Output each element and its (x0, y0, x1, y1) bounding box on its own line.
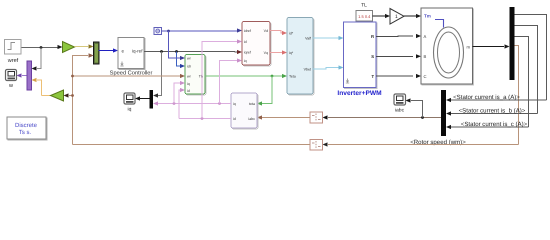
svg-text:Discrete: Discrete (15, 122, 38, 129)
svg-text:A: A (424, 34, 427, 39)
wire teta branch down to dq transform (262, 76, 272, 104)
wire iq measured (158, 103, 231, 105)
svg-text:Teta: Teta (289, 75, 296, 79)
wire teta output (205, 75, 283, 77)
svg-text:1: 1 (395, 14, 398, 20)
svg-text:w: w (8, 83, 13, 89)
wire mux to scope iq (140, 98, 150, 100)
svg-text:1.5 0.4: 1.5 0.4 (358, 14, 371, 19)
wire iq-ref branch to teta calc port2 (177, 52, 181, 67)
wire stator current is_b row (451, 113, 538, 115)
svg-text:id*: id* (289, 32, 294, 36)
rate transition B (310, 140, 323, 151)
svg-text:e: e (122, 48, 125, 53)
wire iq-ref drop to iq mux (158, 52, 162, 96)
wire wref output to gain (22, 47, 59, 49)
svg-text:Ts s.: Ts s. (19, 129, 32, 136)
wire bus tap is_a (515, 15, 547, 101)
svg-text:idref: idref (244, 29, 251, 33)
wire rotor speed feedback to controller (73, 56, 311, 145)
wire iq measured up to regulator (220, 61, 238, 104)
wire speed feedback to teta calc port3 (wr Th) (73, 75, 181, 77)
wire flipped gain output to mux port 2 (37, 80, 51, 96)
svg-text:iabc: iabc (248, 117, 255, 121)
pin mux port1 arrow (32, 66, 37, 70)
wire mux currents output to rate transition A (328, 117, 441, 119)
step source wref (5, 40, 22, 55)
subsystem dq to alpha-beta (288, 19, 314, 96)
wire mux2 to speed controller (99, 50, 114, 52)
node feedback junction wrTh (71, 75, 74, 78)
svg-text:Vbet: Vbet (304, 68, 311, 72)
wire stator current is_c row (451, 126, 529, 128)
svg-text:teta: teta (249, 102, 255, 106)
svg-text:iabc: iabc (395, 108, 405, 114)
bus selector bar (510, 7, 515, 80)
mux stator currents bar (441, 90, 446, 136)
svg-text:id: id (187, 89, 190, 93)
gain 1 (torque) (390, 9, 404, 25)
svg-text:iq: iq (244, 59, 247, 63)
mux (flipped) for scope w (27, 61, 32, 90)
svg-text:<Stator current is_b (A)>: <Stator current is_b (A)> (459, 108, 526, 115)
wire Vbet to inverter (313, 68, 339, 70)
wire gain to mux2 port1 (75, 46, 89, 48)
wire rate transition A to abc2dq iabc (262, 117, 310, 119)
scope w (6, 70, 17, 81)
wire inverter R to machine A (376, 35, 413, 38)
svg-text:id: id (244, 40, 247, 44)
wire Vd to dq2alphabeta (270, 31, 283, 34)
wire wref branch down to mux port 1 (37, 48, 41, 69)
svg-text:R: R (371, 34, 374, 39)
svg-text:Vd: Vd (264, 29, 268, 33)
wire stator current is_a row (451, 99, 547, 101)
gain K (flipped, speed feedback) (51, 90, 64, 101)
wire TL to gain1 (373, 15, 386, 17)
subsystem Teta calculation (186, 56, 206, 96)
svg-text:iq: iq (128, 107, 132, 113)
wire Valf to inverter (313, 37, 339, 39)
wire iq measured to teta calc port4 (174, 83, 180, 104)
svg-text:B: B (424, 54, 427, 59)
subsystem Speed Controller (119, 39, 145, 70)
svg-text:TL: TL (361, 3, 367, 9)
gain speed error (points right) (63, 42, 75, 53)
svg-text:iq: iq (187, 82, 190, 86)
wire bus tap is_b (515, 26, 538, 114)
svg-text:iq: iq (233, 102, 236, 106)
svg-text:Vq: Vq (264, 51, 268, 55)
wire mux output to scope w (22, 75, 27, 77)
subsystem Inverter+PWM (345, 23, 378, 89)
svg-text:T: T (371, 74, 374, 79)
svg-text:<Stator current is_a (A)>: <Stator current is_a (A)> (453, 94, 520, 101)
wire id measured up to regulator (202, 42, 237, 119)
wire inverter T to machine C (376, 75, 413, 77)
source id reference (small block) (154, 28, 162, 35)
subsystem abc to dq (232, 94, 258, 129)
svg-text:Speed Controller: Speed Controller (110, 70, 153, 77)
svg-text:Tm: Tm (424, 14, 431, 19)
wire bus tap rotor speed (515, 46, 519, 145)
wire id reference to regulator idref (162, 30, 238, 32)
wire id reference branch to teta calc port1 (169, 31, 181, 58)
svg-text:m: m (467, 45, 471, 50)
mux iq scope bar (150, 90, 154, 109)
svg-text:S: S (371, 54, 374, 59)
wire rotor speed feedback long line (328, 144, 519, 146)
mux2 before speed controller (94, 42, 100, 64)
wire machine m to bus selector (473, 46, 505, 48)
node wref branch junction (40, 46, 43, 49)
wire feedback tap to flipped gain (69, 95, 73, 97)
wire iq-ref main (144, 51, 237, 54)
rate transition A (310, 112, 323, 123)
svg-text:<Stator current is_c (A)>: <Stator current is_c (A)> (461, 121, 528, 128)
svg-text:wref: wref (7, 58, 19, 64)
machine asynchronous motor (422, 9, 474, 85)
wire id measured (179, 90, 231, 119)
svg-text:C: C (424, 74, 427, 79)
wire Vq to dq2alphabeta (270, 52, 283, 54)
powergui Discrete block (8, 118, 47, 140)
svg-text:Inverter+PWM: Inverter+PWM (337, 90, 382, 97)
wire bus tap is_c (515, 37, 529, 128)
node feedback junction gain tap (71, 94, 74, 97)
scope iq (124, 93, 135, 104)
svg-text:iq-ref: iq-ref (132, 48, 143, 53)
svg-text:iq*: iq* (289, 51, 294, 55)
svg-text:id: id (233, 117, 236, 121)
subsystem current regulator (243, 23, 271, 67)
wire inverter S to machine B (376, 55, 413, 57)
pin mux port2 arrow (32, 78, 37, 82)
wire branch to scope iabc (411, 101, 423, 118)
svg-text:Valf: Valf (305, 37, 311, 41)
wire gain1 to machine Tm (404, 15, 416, 17)
scope iabc (394, 94, 406, 105)
svg-text:iqref: iqref (244, 51, 251, 55)
